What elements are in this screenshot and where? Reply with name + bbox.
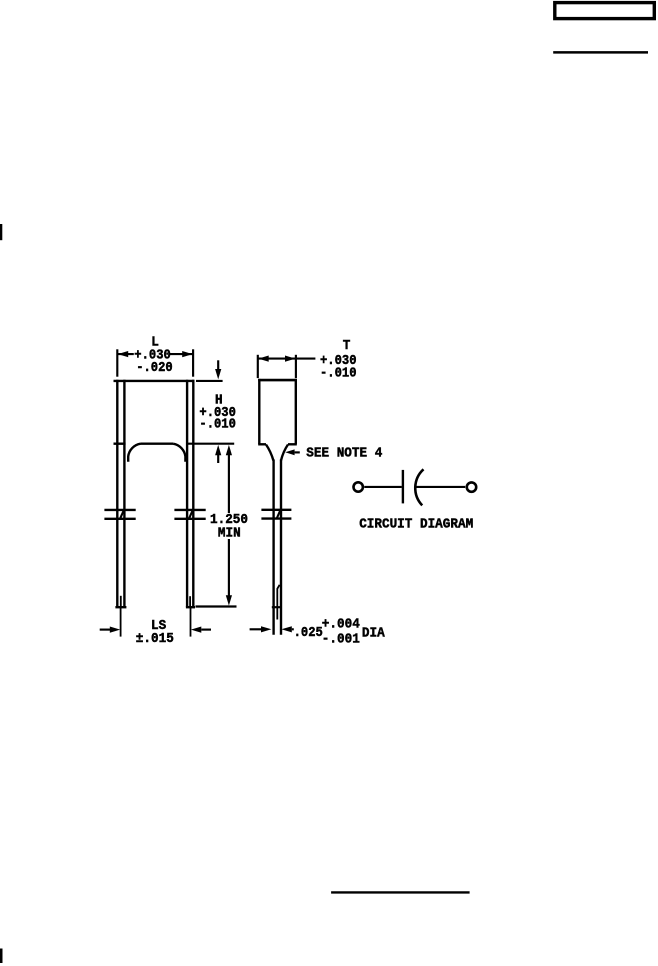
change bar (left margin, lower) [0,949,3,964]
side view lead left edge [272,460,274,635]
T extension line right [295,355,297,378]
H tolerance -.010 [199,417,236,433]
left lead bottom cap [115,606,126,608]
1.250 upper arrow (up) [226,445,232,513]
right lead inner weld stub [189,596,191,607]
svg-text:-.010: -.010 [320,365,357,381]
meniscus taper right [281,445,288,461]
side view lead right edge [280,460,282,635]
MIN text [218,525,241,541]
horizontal rule under title block [553,51,648,54]
body bottom step left [258,443,266,445]
1.250 lower arrow (down) [226,539,232,606]
terminal right [467,482,476,491]
side view lead break marks [261,510,291,519]
svg-text:±.015: ±.015 [136,631,174,647]
L tolerance -.020 [136,360,173,376]
side view body top edge [258,379,297,382]
left lead inner edge [123,380,125,608]
change bar (left margin, upper) [0,224,2,240]
label T [343,338,351,354]
LS left arrow (points right) [100,627,121,633]
wire left [364,486,402,488]
side view lead inner line [277,585,279,620]
L tolerance +.030 [134,347,171,363]
LS right arrow (points left) [191,627,211,633]
svg-text:-.020: -.020 [136,360,173,376]
left lead inner weld stub [120,596,122,607]
T tolerance +.030 [320,353,357,369]
LS tolerance ±.015 [136,631,174,647]
LS extension line left [120,607,122,636]
dia right arrow (points left) [281,626,293,632]
CIRCUIT DIAGRAM caption [359,516,473,532]
H top extension line [196,380,223,382]
L extension line right [192,349,194,376]
body bottom tick / H extension line (right) [186,443,234,445]
label LS [151,618,166,634]
title block box (top right) [555,3,655,19]
svg-text:+.004: +.004 [322,616,360,632]
svg-text:SEE NOTE 4: SEE NOTE 4 [306,446,382,462]
DIA text [362,626,385,642]
T extension line left [257,355,259,378]
footer rule (bottom center) [331,891,470,893]
svg-text:.025: .025 [294,625,323,641]
T dimension line and arrows [258,356,316,362]
left lead break marks [104,510,135,519]
H upper arrow (down) [215,360,221,379]
svg-text:CIRCUIT DIAGRAM: CIRCUIT DIAGRAM [359,516,473,532]
dia left arrow (points right) [250,626,272,632]
H tolerance +.030 [199,405,236,421]
SEE NOTE 4 leader arrow [285,449,300,455]
L extension line left [116,349,118,376]
capacitor C1 straight plate [402,470,404,504]
body bottom meniscus arch [128,444,185,462]
side view body left edge [258,379,260,444]
label L [151,335,159,351]
svg-text:-.001: -.001 [322,631,360,647]
right lead outer edge [192,380,194,608]
svg-text:T: T [343,338,351,354]
wire right [415,486,465,488]
H lower arrow (up) [215,445,221,463]
T tolerance -.010 [320,365,357,381]
capacitor C1 curved plate [415,469,423,505]
body bottom step right [288,443,297,445]
dia tolerance -.001 [322,631,360,647]
dia tolerance +.004 [322,616,360,632]
left lead outer edge [116,380,118,608]
label H [215,393,223,409]
svg-text:-.010: -.010 [199,417,236,433]
side view lead end tick [272,606,281,608]
svg-text:DIA: DIA [362,626,385,642]
1.250 value text [210,512,248,528]
SEE NOTE 4 text [306,446,382,462]
side view body right edge [295,379,297,444]
LS extension line right [190,607,192,636]
right lead bottom cap [186,606,195,608]
meniscus taper left [266,445,273,461]
dia value .025 [294,625,323,641]
right lead break marks [174,510,205,519]
terminal left [354,482,363,491]
body bottom tick across left lead [114,443,126,445]
lead bottom extension line [196,605,237,607]
right lead inner edge [186,380,188,608]
L dimension line and arrows [117,351,193,357]
capacitor body top edge [114,380,195,382]
